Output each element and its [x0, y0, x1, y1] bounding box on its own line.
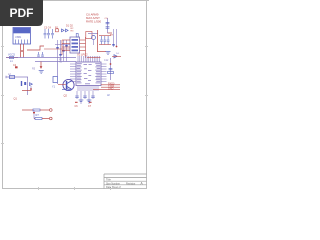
svg-text:U2 LPC2: U2 LPC2: [77, 53, 88, 57]
svg-text:Y1: Y1: [52, 85, 56, 88]
svg-text:D4: D4: [116, 53, 120, 55]
svg-text:USB1: USB1: [15, 36, 22, 39]
svg-text:Title: Title: [106, 178, 111, 182]
svg-text:R7: R7: [36, 113, 40, 117]
svg-text:C7: C7: [88, 105, 92, 108]
svg-text:RATE L/500: RATE L/500: [86, 20, 101, 24]
svg-text:C6: C6: [75, 105, 79, 108]
svg-text:Q2: Q2: [64, 94, 68, 98]
svg-text:L1: L1: [10, 60, 13, 63]
svg-text:D1 D2: D1 D2: [66, 24, 73, 27]
svg-text:Revision: Revision: [126, 182, 136, 185]
svg-text:C12: C12: [104, 59, 109, 62]
svg-text:Size Number: Size Number: [106, 182, 120, 185]
svg-text:Q1: Q1: [14, 97, 18, 101]
svg-text:Date Sheet of: Date Sheet of: [106, 186, 121, 189]
svg-text:R5: R5: [32, 67, 36, 70]
svg-text:PDF: PDF: [10, 6, 34, 20]
svg-text:C3 C4: C3 C4: [44, 26, 51, 29]
svg-text:J2: J2: [107, 93, 110, 97]
svg-text:GND: GND: [108, 87, 114, 90]
svg-text:K2: K2: [59, 61, 63, 64]
svg-text:R3: R3: [71, 31, 75, 33]
